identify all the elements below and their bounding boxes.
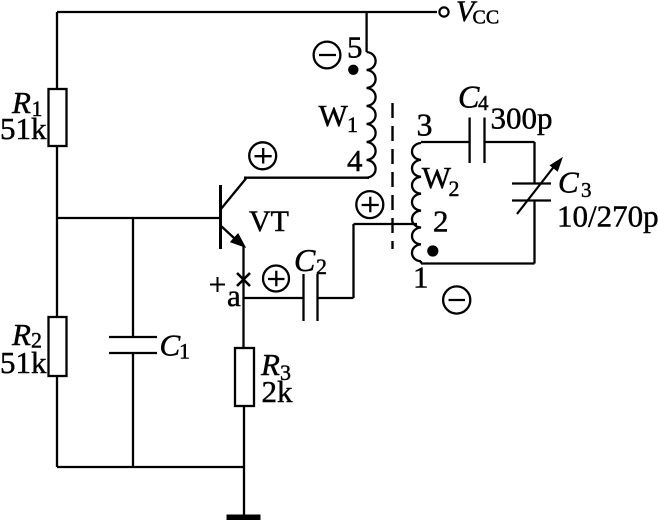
svg-text:1: 1 bbox=[413, 260, 429, 295]
svg-text:C: C bbox=[558, 165, 579, 200]
svg-text:10/270p: 10/270p bbox=[557, 199, 658, 234]
svg-text:C: C bbox=[160, 328, 181, 363]
svg-text:1: 1 bbox=[347, 112, 358, 137]
svg-text:300p: 300p bbox=[491, 101, 553, 136]
svg-text:CC: CC bbox=[473, 7, 500, 29]
svg-text:3: 3 bbox=[417, 107, 433, 143]
svg-text:W: W bbox=[422, 160, 452, 195]
svg-text:C: C bbox=[458, 79, 480, 115]
svg-text:C: C bbox=[294, 242, 316, 278]
svg-text:51k: 51k bbox=[0, 345, 47, 380]
svg-text:4: 4 bbox=[478, 91, 489, 115]
svg-text:VT: VT bbox=[249, 205, 289, 238]
svg-text:2: 2 bbox=[316, 254, 327, 279]
svg-text:4: 4 bbox=[347, 143, 363, 178]
svg-text:5: 5 bbox=[347, 30, 363, 65]
svg-text:2k: 2k bbox=[262, 374, 294, 409]
svg-text:W: W bbox=[319, 98, 349, 133]
svg-text:a: a bbox=[227, 278, 241, 313]
svg-text:2: 2 bbox=[449, 176, 460, 201]
svg-text:1: 1 bbox=[179, 339, 190, 364]
svg-text:2: 2 bbox=[433, 204, 449, 239]
svg-text:51k: 51k bbox=[0, 111, 47, 146]
